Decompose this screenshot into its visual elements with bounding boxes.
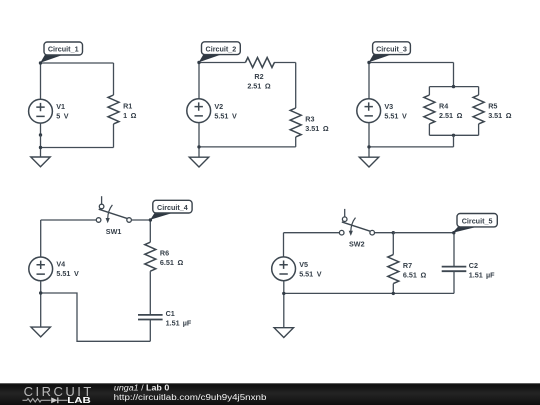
wire from R3 bottom — [295, 137, 297, 147]
svg-text:5.51 V: 5.51 V — [214, 111, 237, 120]
svg-text:5 V: 5 V — [56, 112, 69, 121]
wire right side down to R3 — [295, 63, 297, 109]
footer background bar — [0, 383, 540, 405]
wire feed down to parallel rails — [453, 63, 455, 87]
svg-text:R2: R2 — [254, 72, 263, 81]
node circuit 4 ground junction — [39, 291, 42, 294]
svg-text:5.51 V: 5.51 V — [384, 111, 407, 120]
wire V3 bottom pin to ground — [368, 123, 370, 160]
switch SW1 — [96, 196, 131, 236]
voltage source V1 — [29, 99, 69, 123]
svg-text:LAB: LAB — [67, 395, 91, 405]
resistor R3 — [290, 108, 329, 137]
wire top of circuit 3 — [369, 62, 454, 64]
voltage source V4 — [29, 257, 79, 281]
wire right side down to R1 — [113, 63, 115, 95]
wire to ground junction — [40, 135, 42, 160]
wire R5 bottom lead — [478, 124, 480, 135]
node R7 bottom junction — [392, 292, 395, 295]
node circuit 2 ground junction — [197, 145, 200, 148]
svg-text:R4: R4 — [439, 102, 448, 111]
capacitor C2 — [442, 261, 495, 280]
wire top of circuit 1 — [41, 62, 114, 64]
wire R5 top lead — [478, 87, 480, 95]
wire R4 bottom lead — [428, 124, 430, 135]
svg-text:SW2: SW2 — [349, 240, 365, 249]
label Circuit_3 callout — [369, 42, 411, 63]
wire bottom of circuit 5 — [284, 292, 454, 294]
voltage source V3 — [357, 99, 407, 123]
svg-text:Circuit_1: Circuit_1 — [48, 45, 79, 54]
svg-text:C1: C1 — [166, 309, 175, 318]
svg-text:3.51 Ω: 3.51 Ω — [305, 124, 329, 133]
svg-text:2.51 Ω: 2.51 Ω — [439, 111, 463, 120]
svg-text:V2: V2 — [214, 102, 223, 111]
svg-text:V3: V3 — [384, 102, 393, 111]
wire switch to R7 node — [375, 232, 394, 234]
resistor R2 — [245, 58, 274, 91]
node bottom rail junction — [452, 134, 455, 137]
wire V4 bottom pin to ground — [40, 281, 42, 330]
svg-text:Circuit_4: Circuit_4 — [157, 203, 188, 212]
svg-text:6.51 Ω: 6.51 Ω — [403, 271, 427, 280]
node circuit 5 switch-R7 junction — [392, 231, 395, 234]
node circuit 3 top-left — [367, 61, 370, 64]
svg-text:http://circuitlab.com/c9uh9y4j: http://circuitlab.com/c9uh9y4j5nxnb — [114, 393, 267, 402]
ground circuit 2 — [189, 157, 208, 167]
capacitor C1 — [138, 309, 192, 328]
node top rail junction — [452, 85, 455, 88]
svg-text:C2: C2 — [469, 261, 478, 270]
wire R4 top lead — [428, 87, 430, 95]
wire V2 bottom pin to ground — [198, 123, 200, 160]
switch SW2 — [339, 209, 374, 249]
svg-text:1.51 µF: 1.51 µF — [166, 319, 192, 328]
wire V3 top pin — [368, 63, 370, 100]
wire top rail of parallel section — [429, 86, 478, 88]
wire R7 node to C2 corner — [393, 232, 454, 234]
wire bottom rail of parallel section — [429, 134, 478, 136]
svg-text:V4: V4 — [56, 260, 65, 269]
svg-text:SW1: SW1 — [106, 227, 122, 236]
svg-text:5.51 V: 5.51 V — [56, 269, 79, 278]
wire V1 top pin — [40, 63, 42, 99]
node circuit 2 top-left — [197, 61, 200, 64]
label Circuit_4 callout — [150, 200, 192, 220]
voltage source V5 — [272, 257, 322, 281]
wire V4 top pin — [40, 220, 42, 257]
svg-text:6.51 Ω: 6.51 Ω — [160, 258, 184, 267]
svg-text:R7: R7 — [403, 261, 412, 270]
svg-text:V1: V1 — [56, 102, 65, 111]
wire V2 top pin — [198, 63, 200, 100]
svg-text:2.51 Ω: 2.51 Ω — [247, 82, 271, 91]
svg-text:R5: R5 — [488, 102, 497, 111]
wire bottom of circuit 1 — [41, 147, 114, 149]
wire from R2 to top-right corner — [274, 62, 296, 64]
resistor R4 — [424, 95, 463, 124]
label Circuit_2 callout — [199, 42, 241, 63]
resistor R7 — [388, 255, 427, 284]
svg-text:Circuit_5: Circuit_5 — [462, 216, 493, 225]
svg-text:unga1 / Lab 0: unga1 / Lab 0 — [114, 384, 170, 393]
node circuit 3 ground junction — [367, 145, 370, 148]
node circuit 1 top-left — [39, 61, 42, 64]
svg-text:R3: R3 — [305, 115, 314, 124]
wire down to R6 — [149, 220, 151, 242]
wire C2 bottom lead — [453, 271, 455, 293]
node circuit 5 top-right corner — [452, 231, 455, 234]
node circuit 1 ground junction — [39, 146, 42, 149]
node circuit 4 switch-R6 junction — [149, 218, 152, 221]
svg-text:5.51 V: 5.51 V — [299, 269, 322, 278]
node at V1 bottom pin — [39, 133, 42, 136]
wire C1 bottom — [149, 320, 151, 342]
svg-text:V5: V5 — [299, 260, 308, 269]
wire from R1 bottom — [113, 124, 115, 148]
wire from bottom rail down — [453, 135, 455, 147]
wire R6 to C1 — [149, 271, 151, 315]
wire V5 bottom pin to ground — [283, 281, 285, 331]
wire V1 bottom pin — [40, 123, 42, 135]
wire V5 top pin — [283, 233, 285, 257]
wire top-left of circuit 5 — [284, 232, 340, 234]
wire R7 bottom lead — [392, 284, 394, 294]
voltage source V2 — [187, 99, 237, 123]
label Circuit_1 callout — [40, 42, 82, 63]
ground circuit 5 — [274, 328, 293, 338]
wire C2 top lead — [453, 233, 455, 267]
wire bottom of circuit 3 — [369, 146, 454, 148]
resistor R5 — [473, 95, 512, 124]
ground circuit 3 — [359, 157, 378, 167]
svg-text:Circuit_3: Circuit_3 — [376, 44, 407, 53]
svg-text:Circuit_2: Circuit_2 — [206, 44, 237, 53]
wire bottom of circuit 4 — [41, 293, 151, 341]
logo wire-resistor-diode doodle — [23, 397, 68, 403]
resistor R6 — [145, 242, 184, 271]
node circuit 5 ground junction — [282, 292, 285, 295]
svg-text:1.51 µF: 1.51 µF — [469, 270, 495, 279]
wire top-left of circuit 2 — [199, 62, 245, 64]
svg-text:1 Ω: 1 Ω — [123, 111, 137, 120]
ground circuit 1 — [31, 157, 50, 167]
svg-text:3.51 Ω: 3.51 Ω — [488, 111, 512, 120]
wire R7 top lead — [392, 233, 394, 255]
resistor R1 — [108, 95, 137, 124]
ground circuit 4 — [31, 327, 50, 337]
wire bottom of circuit 2 — [199, 146, 296, 148]
svg-text:R6: R6 — [160, 249, 169, 258]
wire switch to node — [131, 219, 150, 221]
svg-text:R1: R1 — [123, 102, 132, 111]
wire top-left of circuit 4 — [41, 219, 97, 221]
label Circuit_5 callout — [452, 214, 497, 233]
